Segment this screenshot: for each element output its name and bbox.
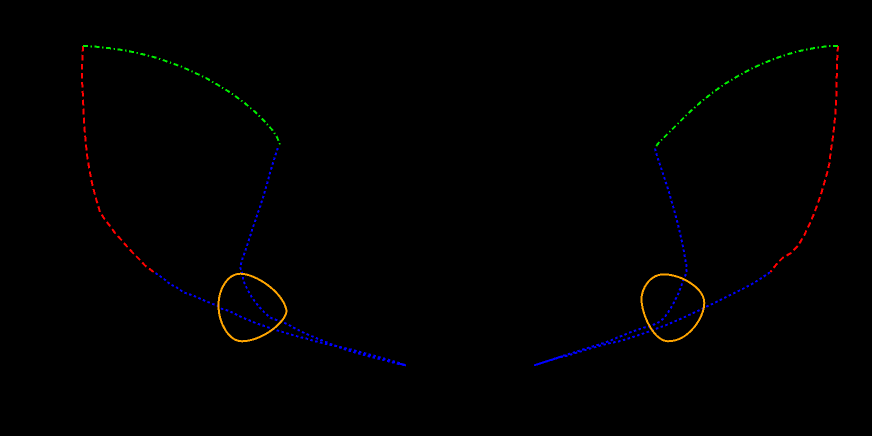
right leaf: blue dotted shallow branch	[534, 272, 770, 365]
right leaf: green dash-dot boundary segment	[656, 46, 838, 146]
left orange closed contour	[219, 274, 287, 342]
right orange closed contour	[641, 274, 704, 341]
right leaf: blue dotted steep branch	[534, 149, 687, 366]
right leaf: red dashed boundary segment	[771, 46, 839, 272]
right leaf: blue tip overlap segment	[534, 356, 563, 365]
left leaf: red dashed boundary segment	[82, 46, 155, 273]
left leaf: blue tip overlap segment	[398, 363, 407, 365]
left leaf: green dash-dot boundary segment	[83, 46, 281, 146]
left leaf: blue dotted shallow branch	[156, 273, 407, 365]
left leaf: blue dotted steep branch	[240, 148, 406, 365]
